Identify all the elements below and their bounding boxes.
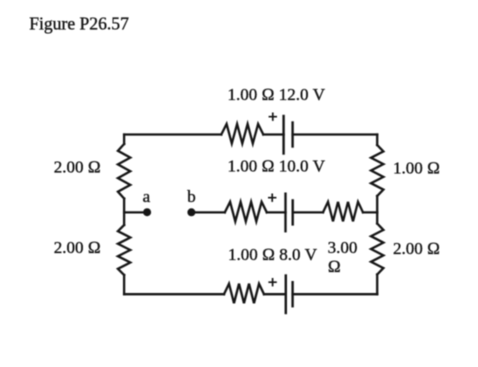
wire left rail top stub <box>123 135 125 145</box>
svg-text:Ω: Ω <box>328 257 341 276</box>
wire stub to node a <box>124 211 147 213</box>
resistor R top 1.00 ohm <box>221 124 263 144</box>
svg-text:1.00 Ω 8.0 V: 1.00 Ω 8.0 V <box>228 245 318 264</box>
wire node b to resistor <box>191 211 224 213</box>
plus sign bottom battery <box>268 278 276 286</box>
wire top rail mid segment <box>263 133 283 135</box>
node b <box>187 208 195 216</box>
wire right rail middle segment <box>376 196 378 224</box>
battery 12.0 V short plate <box>291 123 293 147</box>
battery 10.0 V short plate <box>292 200 294 224</box>
plus sign top battery <box>269 113 277 121</box>
wire right rail bottom segment <box>376 275 378 295</box>
node a <box>143 208 151 216</box>
battery 10.0 V long plate <box>284 194 286 232</box>
resistor middle right 3.00 ohm <box>323 202 363 222</box>
resistor left lower 2.00 ohm <box>118 225 130 275</box>
wire middle to battery <box>267 211 286 213</box>
svg-text:b: b <box>187 187 196 206</box>
wire bottom rail right segment <box>293 293 378 295</box>
svg-text:a: a <box>143 187 151 206</box>
svg-text:Figure P26.57: Figure P26.57 <box>29 14 129 34</box>
wire left rail bottom segment <box>123 275 125 294</box>
wire bottom rail mid segment <box>264 293 286 295</box>
svg-text:1.00 Ω: 1.00 Ω <box>393 159 440 178</box>
svg-text:3.00: 3.00 <box>328 238 358 257</box>
plus sign middle battery <box>268 194 276 202</box>
battery 8.0 V short plate <box>291 282 293 306</box>
svg-text:2.00 Ω: 2.00 Ω <box>54 157 101 176</box>
svg-text:2.00 Ω: 2.00 Ω <box>393 239 440 258</box>
wire battery to resistor 3.00 <box>293 211 323 213</box>
svg-text:2.00 Ω: 2.00 Ω <box>54 238 101 257</box>
battery 8.0 V long plate <box>285 276 287 314</box>
resistor middle 1.00 ohm <box>225 202 267 222</box>
resistor left upper 2.00 ohm <box>118 144 130 199</box>
svg-text:1.00 Ω 12.0 V: 1.00 Ω 12.0 V <box>228 85 326 104</box>
battery 12.0 V long plate <box>282 116 284 154</box>
resistor right lower 2.00 ohm <box>371 224 383 275</box>
resistor R bottom 1.00 ohm <box>224 284 264 304</box>
wire middle to right rail <box>363 211 377 213</box>
wire left rail middle segment <box>123 199 125 226</box>
wire bottom rail left segment <box>124 293 224 295</box>
wire right rail top stub <box>376 135 378 146</box>
svg-text:1.00 Ω 10.0 V: 1.00 Ω 10.0 V <box>228 157 326 176</box>
wire top rail left segment <box>124 133 221 135</box>
resistor right upper 1.00 ohm <box>371 145 383 196</box>
wire top rail right segment <box>293 133 378 135</box>
